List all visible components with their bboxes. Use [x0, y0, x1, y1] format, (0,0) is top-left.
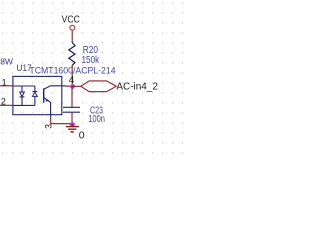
pin 2 [1, 97, 6, 107]
ground 0 [66, 124, 85, 142]
wire node to net flag [72, 85, 81, 87]
svg-text:3: 3 [44, 124, 54, 129]
svg-text:0: 0 [79, 130, 85, 142]
pin 4 stub [62, 85, 66, 87]
wire to pin 1 [0, 85, 13, 87]
node junction at R20 / pin4 / flag / C23 [69, 83, 75, 89]
wire node to C23 [71, 86, 73, 107]
wire C23 to ground node [71, 112, 73, 124]
node junction at ground [69, 121, 75, 127]
pin 4 [69, 75, 75, 86]
resistor R20 150k [69, 43, 100, 67]
optocoupler U17 TCMT1600/ACPL-214 [13, 63, 116, 115]
svg-text:VCC: VCC [62, 14, 80, 25]
pin 1 [2, 78, 7, 88]
svg-text:AC-in4_2: AC-in4_2 [116, 81, 158, 92]
svg-text:8W: 8W [0, 56, 13, 66]
capacitor C23 100n [63, 106, 105, 125]
pin 3 [44, 124, 54, 129]
pin 3 stub [50, 115, 52, 118]
wire R20 to node [71, 65, 73, 86]
power VCC [62, 14, 80, 30]
LED pair inside U17 [13, 86, 37, 105]
wire pin4 to node [66, 85, 72, 87]
net flag AC-in4_2 [81, 81, 158, 92]
label 8W (clipped at left edge) [0, 56, 13, 66]
phototransistor inside U17 [44, 86, 62, 115]
svg-text:TCMT1600/ACPL-214: TCMT1600/ACPL-214 [29, 66, 115, 76]
wire VCC to R20 [71, 30, 73, 43]
wire to pin 2 [0, 104, 13, 106]
svg-text:100n: 100n [88, 114, 105, 125]
wire pin 3 to ground node [51, 118, 72, 124]
